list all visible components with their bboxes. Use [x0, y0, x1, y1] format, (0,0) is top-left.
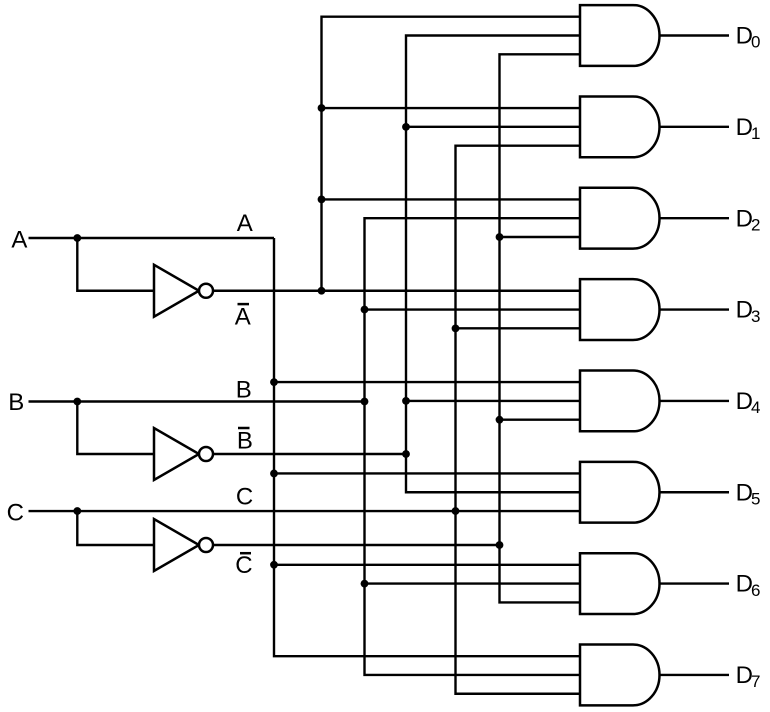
- AND gate U4 (output D0): [580, 5, 660, 66]
- wire A input horizontal: [29, 237, 275, 239]
- svg-text:B: B: [8, 389, 24, 416]
- AND gate U11 (output D7): [580, 645, 660, 706]
- wire C bus from D1 pin3 down to D7 pin3: [456, 146, 581, 694]
- node B branch junction: [73, 398, 81, 406]
- wire B to D6 pin2: [365, 582, 581, 584]
- node B to D3 junction: [361, 306, 369, 314]
- node B-bar to D1 junction: [402, 123, 410, 131]
- AND gate U5 (output D1): [580, 96, 660, 157]
- svg-text:B: B: [236, 377, 252, 404]
- wire A-bar to D1 pin1: [322, 107, 581, 109]
- wire B input horizontal: [29, 400, 365, 402]
- AND gate U10 (output D6): [580, 553, 660, 614]
- svg-text:6: 6: [751, 581, 760, 600]
- AND gate U7 (output D3): [580, 279, 660, 340]
- wire output D1: [660, 126, 730, 128]
- wire output D6: [660, 582, 730, 584]
- wire A to inverter U1 input: [77, 238, 154, 291]
- svg-text:1: 1: [751, 124, 760, 143]
- wire output D2: [660, 217, 730, 219]
- wire C-bar to D2 pin3: [500, 236, 581, 238]
- node C bus tap: [452, 507, 460, 515]
- wire C-bar output to bus: [213, 544, 500, 546]
- svg-text:C: C: [7, 499, 24, 526]
- svg-text:2: 2: [751, 215, 760, 234]
- wire C to inverter U3 input: [77, 511, 154, 545]
- svg-text:C: C: [236, 484, 253, 511]
- node A to D4 junction: [270, 378, 278, 386]
- inverter U1 (NOT A): [154, 265, 199, 317]
- node C to D3 junction: [452, 324, 460, 332]
- wire C-bar to D4 pin3: [500, 419, 581, 421]
- node A to D5 junction: [270, 470, 278, 478]
- wire C input horizontal (feeds D5 pin3): [29, 510, 581, 512]
- wire B bus from D2 pin2 down to D7 pin2: [365, 218, 581, 675]
- wire B-bar to D4 pin2: [406, 400, 580, 402]
- node B to D6 junction: [361, 580, 369, 588]
- svg-text:4: 4: [751, 398, 760, 417]
- inverter U3 (NOT C): [154, 519, 199, 571]
- wire B-bar output to bus: [213, 453, 406, 455]
- svg-text:B: B: [237, 428, 253, 455]
- node A to D6 junction: [270, 561, 278, 569]
- wire output D4: [660, 400, 730, 402]
- node C-bar to D2 junction: [496, 233, 504, 241]
- node A-bar to D2 junction: [318, 196, 326, 204]
- wire A-bar bus up to D0 pin1: [322, 17, 581, 291]
- wire A-bar to D2 pin1: [322, 198, 581, 200]
- node B bus tap: [361, 398, 369, 406]
- svg-text:5: 5: [751, 489, 760, 508]
- node A-bar to D1 junction: [318, 104, 326, 112]
- wire C-bar bus from D0 pin3 down to D6 pin3: [500, 54, 581, 602]
- node C-bar to D4 junction: [496, 416, 504, 424]
- svg-text:A: A: [11, 227, 27, 254]
- wire C to D3 pin3: [456, 327, 581, 329]
- wire A to D5 pin1: [274, 472, 580, 474]
- svg-text:C: C: [235, 552, 252, 579]
- wire output D0: [660, 34, 730, 36]
- svg-text:7: 7: [751, 672, 760, 691]
- node B-bar to D4 junction: [402, 397, 410, 405]
- wire A bus down to D7 pin1: [274, 238, 580, 656]
- svg-text:0: 0: [751, 33, 760, 52]
- wire output D5: [660, 491, 730, 493]
- AND gate U8 (output D4): [580, 371, 660, 432]
- svg-text:A: A: [237, 210, 253, 237]
- svg-text:A: A: [235, 303, 251, 330]
- wire A to D4 pin1: [274, 381, 580, 383]
- node B-bar bus tap: [402, 450, 410, 458]
- wire A-bar output to D3 pin1: [213, 290, 580, 292]
- node C branch junction: [73, 507, 81, 515]
- node A-bar bus tap: [318, 287, 326, 295]
- wire B to D3 pin2: [365, 308, 581, 310]
- node A branch junction: [73, 234, 81, 242]
- wire output D7: [660, 674, 730, 676]
- AND gate U9 (output D5): [580, 462, 660, 523]
- svg-text:3: 3: [751, 307, 760, 326]
- wire B to inverter U2 input: [77, 402, 154, 455]
- wire B-bar to D1 pin2: [406, 126, 580, 128]
- wire B-bar bus from D0 pin2 down to D5 pin2: [406, 36, 580, 493]
- node C-bar bus tap: [496, 541, 504, 549]
- inverter U2 (NOT B): [154, 428, 199, 480]
- AND gate U6 (output D2): [580, 188, 660, 249]
- wire A to D6 pin1: [274, 564, 580, 566]
- wire output D3: [660, 308, 730, 310]
